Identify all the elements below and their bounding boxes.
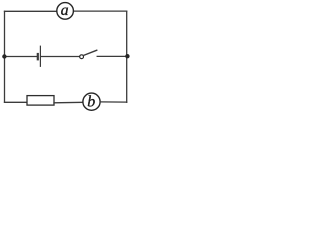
- wire bottom rail left segment: [5, 101, 28, 103]
- wire top rail left segment: [5, 10, 57, 12]
- switch arm (open): [83, 50, 97, 55]
- wire bottom rail right segment: [100, 101, 127, 103]
- battery (cell): short thick negative plate: [37, 54, 39, 59]
- wire middle rail left segment: [5, 56, 37, 58]
- wire middle rail right segment: [97, 55, 127, 57]
- meter a (circle with italic a): [57, 2, 74, 19]
- wire top rail right segment: [74, 10, 127, 12]
- svg-text:b: b: [87, 93, 95, 110]
- junction dot left (node): [2, 54, 6, 58]
- switch pivot (open circle): [80, 55, 84, 59]
- wire left vertical: [4, 11, 6, 102]
- meter b (circle with italic b): [83, 93, 100, 110]
- junction dot right (node): [125, 54, 129, 58]
- wire middle rail between battery and switch: [41, 56, 79, 58]
- wire bottom rail between resistor and meter b: [54, 101, 83, 104]
- svg-text:a: a: [61, 2, 69, 19]
- wire right vertical: [126, 11, 128, 102]
- resistor R (rectangle): [27, 96, 54, 106]
- battery (cell): long thin positive plate: [39, 46, 41, 66]
